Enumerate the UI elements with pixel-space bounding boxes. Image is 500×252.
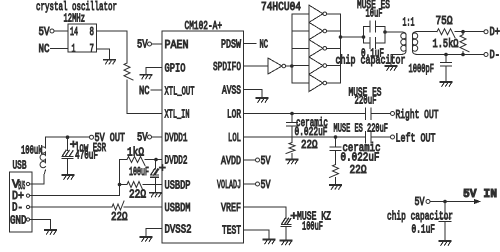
inverter U2B triangle — [309, 5, 323, 22]
wire X1 pin8 output, down the left of IC — [96, 31, 127, 63]
wire 100uF to ground — [285, 227, 287, 241]
5V OUT terminal — [90, 135, 94, 139]
node dot driver output on bus — [290, 64, 294, 68]
wire 0.1uF to ground — [444, 222, 446, 241]
wire T1 secondary top to 75 ohm resistor — [416, 31, 437, 33]
wire inverter 4 output to output bus — [327, 65, 341, 67]
wire cap network to T1 primary — [385, 31, 403, 33]
node dot at 1.5k bottom — [461, 53, 465, 57]
ground at TEST — [263, 240, 274, 244]
svg-text:75Ω: 75Ω — [436, 14, 453, 28]
svg-text:1000pF: 1000pF — [409, 62, 435, 76]
svg-text:USBDP: USBDP — [165, 179, 191, 193]
ground below T1 primary — [385, 66, 396, 70]
ground below 100uF — [150, 193, 161, 197]
svg-text:0.1uF: 0.1uF — [412, 223, 436, 237]
wire 22 ohm to USBDP pin — [143, 184, 162, 186]
capacitor 470uF low ESR (polarized) from 5V rail — [67, 137, 69, 150]
svg-text:CM102-A+: CM102-A+ — [185, 19, 223, 33]
wire 22 ohm to USBDM pin — [124, 206, 162, 208]
node dot D+ branch to USBDP — [118, 183, 122, 187]
wire 1k to DVDD2 pin — [145, 159, 162, 161]
svg-text:D+: D+ — [490, 25, 500, 39]
node dot left channel filter branch — [334, 135, 338, 139]
D+ output terminal — [484, 30, 488, 34]
svg-text:NC: NC — [39, 42, 50, 56]
node dot right channel filter branch — [290, 112, 294, 116]
ground at USB GND — [45, 230, 56, 234]
capacitor 10uF plates — [364, 26, 371, 28]
5V terminal at VOLADJ — [256, 182, 260, 186]
wire inverter 2 output to output bus — [327, 30, 341, 32]
svg-text:VOLADJ: VOLADJ — [217, 178, 241, 192]
ground at DVSS2 — [140, 237, 151, 241]
svg-text:NC: NC — [260, 38, 269, 52]
wire AVSS to ground — [244, 90, 263, 98]
svg-text:GND: GND — [10, 214, 27, 228]
wire input stub to inverter 4 — [292, 65, 309, 67]
svg-text:220uF: 220uF — [355, 94, 377, 108]
Left OUT terminal — [391, 135, 395, 139]
svg-text:SPDIFO: SPDIFO — [213, 60, 241, 74]
wire T1 secondary bottom to D- terminal — [416, 54, 484, 56]
wire LOL output line — [244, 136, 366, 138]
svg-text:5V: 5V — [137, 131, 148, 145]
capacitor MUSE KZ 100uF (polarized) at VREF — [281, 218, 291, 226]
inverter U2D triangle — [309, 40, 323, 57]
svg-text:USB: USB — [13, 159, 27, 173]
ground left channel filter — [330, 185, 341, 189]
svg-text:14: 14 — [70, 25, 78, 39]
svg-text:22Ω: 22Ω — [111, 210, 128, 224]
capacitor 1000pF shunt — [445, 55, 447, 63]
svg-text:+: + — [159, 161, 166, 175]
wire 5V IN with arrow — [430, 201, 477, 203]
svg-text:Right OUT: Right OUT — [396, 108, 439, 122]
ground right channel filter — [286, 160, 297, 164]
wire input bus vertical — [291, 14, 293, 83]
svg-text:Left OUT: Left OUT — [396, 132, 436, 146]
resistor 22 ohm left channel — [330, 165, 339, 178]
svg-text:LOL: LOL — [228, 131, 241, 145]
svg-text:1: 1 — [72, 42, 76, 56]
wire driver output to input bus — [286, 65, 292, 67]
resistor 75 ohm — [437, 29, 455, 38]
wire inverter 3 output to output bus — [327, 47, 341, 49]
wire inverter 1 output to output bus — [327, 13, 341, 15]
svg-text:DVSS2: DVSS2 — [165, 223, 192, 237]
wire 5V to PAEN — [152, 43, 163, 45]
resistor 22 ohm right channel — [286, 143, 295, 154]
resistor 22 ohm in D- line to USBDM — [112, 201, 124, 210]
wire cap to 22 ohm left channel — [335, 151, 337, 165]
IC U1 CM102-A+ body — [162, 31, 244, 243]
inductor 100uH — [45, 137, 47, 148]
wire output bus to coupling caps — [341, 36, 364, 38]
wire input stub to inverter 5 — [292, 82, 309, 84]
svg-text:74HCU04: 74HCU04 — [261, 0, 301, 14]
svg-text:USBDM: USBDM — [165, 201, 191, 215]
svg-text:100uF: 100uF — [302, 220, 323, 234]
svg-text:XTL_OUT: XTL_OUT — [165, 85, 195, 99]
wire 75 ohm to D+ terminal — [455, 31, 484, 33]
svg-text:5V: 5V — [39, 25, 51, 39]
node dot on 5V rail for 470uF — [66, 135, 70, 139]
svg-text:100uH: 100uH — [21, 144, 43, 158]
wire X1 pin7 to ground — [96, 49, 109, 60]
node dot 5V IN decoupling — [443, 200, 447, 204]
wire NC to X1 pin1 — [51, 48, 69, 50]
wire 22 ohm to ground right channel — [291, 154, 293, 160]
wire PDSW to NC — [244, 43, 257, 45]
svg-text:VREF: VREF — [221, 201, 241, 215]
wire inverter 5 output to output bus — [327, 82, 341, 84]
svg-text:5V: 5V — [261, 154, 272, 168]
USB connector J1 body — [10, 172, 33, 232]
svg-text:LOR: LOR — [227, 108, 241, 122]
svg-text:1:1: 1:1 — [403, 16, 415, 30]
svg-text:PDSW: PDSW — [221, 38, 242, 52]
capacitor 0.1uF at 5V IN — [444, 202, 446, 218]
svg-text:22Ω: 22Ω — [350, 163, 367, 177]
wire 5V to DVDD1 — [152, 136, 163, 138]
svg-text:DVDD1: DVDD1 — [165, 131, 188, 145]
wire SPDIFO to driver inverter input — [244, 65, 269, 67]
ground below 1000pF — [440, 82, 451, 86]
node dot 1000pF branch — [444, 53, 448, 57]
wire output bus vertical — [340, 14, 342, 83]
inverter U2A driver triangle — [268, 58, 282, 74]
svg-text:NC: NC — [139, 84, 150, 98]
wire LOR output line — [244, 113, 366, 115]
svg-text:10uF: 10uF — [366, 7, 383, 21]
node dot output bus tap — [339, 35, 343, 39]
D- output terminal — [484, 53, 488, 57]
wire 220uF to Left OUT — [371, 136, 391, 138]
capacitor 0.1uF plates — [364, 42, 371, 44]
svg-text:AVSS: AVSS — [222, 84, 241, 98]
wire VOLADJ to 5V — [244, 183, 256, 185]
wire 220uF to Right OUT — [371, 113, 391, 115]
transformer T1 secondary winding — [413, 32, 417, 35]
svg-text:5V: 5V — [261, 178, 272, 192]
wire AVDD to 5V — [244, 159, 256, 161]
svg-text:D-: D- — [12, 201, 23, 215]
svg-text:MUSE ES 220uF: MUSE ES 220uF — [334, 122, 389, 136]
wire 22 ohm to ground left channel — [335, 178, 337, 185]
wire GPIO to ground — [146, 68, 162, 75]
svg-text:PAEN: PAEN — [165, 38, 189, 52]
wire USB GND to ground — [30, 220, 51, 230]
ground at GPIO — [140, 75, 151, 79]
svg-text:TEST: TEST — [222, 224, 241, 238]
svg-text:1.5kΩ: 1.5kΩ — [433, 37, 459, 51]
svg-text:XTL_IN: XTL_IN — [165, 108, 190, 122]
svg-text:AVDD: AVDD — [221, 154, 241, 168]
capacitor 0.022uF right channel — [291, 114, 293, 123]
wire inductor bottom to USB VBUS — [30, 170, 46, 184]
svg-text:5V: 5V — [137, 38, 148, 52]
resistor 1.5k ohm shunt — [462, 32, 464, 35]
wire resistor to XTL_IN pin — [127, 80, 162, 114]
wire VREF to 100uF — [244, 207, 287, 218]
svg-text:22Ω: 22Ω — [301, 138, 318, 152]
ground below 470uF — [62, 175, 73, 179]
capacitor 220uF right channel plates — [365, 108, 367, 120]
transformer T1 primary winding — [403, 32, 407, 35]
ground at AVSS — [256, 98, 267, 102]
svg-text:8: 8 — [90, 25, 95, 39]
resistor (unlabeled) in series with XTL_IN — [124, 63, 133, 80]
svg-text:5V: 5V — [415, 195, 426, 209]
node dot coupling cap right node — [383, 30, 387, 34]
ground below VREF 100uF — [280, 241, 291, 245]
svg-text:GPIO: GPIO — [165, 62, 186, 76]
wire cap to 22 ohm right channel — [291, 126, 293, 143]
inverter U2C triangle — [309, 22, 323, 39]
wire TEST to ground — [244, 230, 270, 239]
wire T1 primary bottom to ground — [391, 54, 403, 65]
svg-text:22Ω: 22Ω — [129, 188, 146, 202]
svg-text:7: 7 — [90, 42, 95, 56]
inverter U2E triangle — [309, 57, 323, 74]
svg-text:D-: D- — [490, 48, 500, 62]
node dot DVDD2 decoupling — [154, 158, 158, 162]
wire 5V OUT rail — [46, 136, 90, 138]
ground below 5V IN 0.1uF — [439, 241, 450, 245]
svg-text:100uF: 100uF — [129, 165, 149, 179]
svg-text:5V IN: 5V IN — [463, 187, 497, 201]
capacitor pair right leg — [384, 27, 386, 44]
capacitor pair left leg — [363, 27, 365, 44]
capacitor 0.022uF left channel — [335, 137, 337, 147]
5V terminal at AVDD — [256, 158, 260, 162]
wire DVSS2 to ground — [146, 229, 162, 237]
node dot coupling cap left node — [362, 35, 366, 39]
svg-text:470uF: 470uF — [75, 149, 98, 163]
svg-text:DVDD2: DVDD2 — [165, 154, 188, 168]
capacitor 220uF left channel plates — [365, 132, 367, 144]
inverter U2F triangle — [309, 74, 323, 91]
wire input stub to inverter 2 — [292, 30, 309, 32]
ground below X1 pin 7 — [104, 60, 115, 64]
svg-text:12MHz: 12MHz — [64, 12, 86, 26]
wire input stub to inverter 1 — [292, 13, 309, 15]
Right OUT terminal — [391, 112, 395, 116]
wire input stub to inverter 3 — [292, 47, 309, 49]
wire USB D- line — [30, 206, 112, 208]
node dot at 1.5k top — [461, 30, 465, 34]
wire USB D+ up to pull-up node — [30, 160, 120, 196]
wire NC to XTL_OUT — [151, 89, 162, 91]
wire 5V to X1 pin14 — [54, 30, 68, 32]
